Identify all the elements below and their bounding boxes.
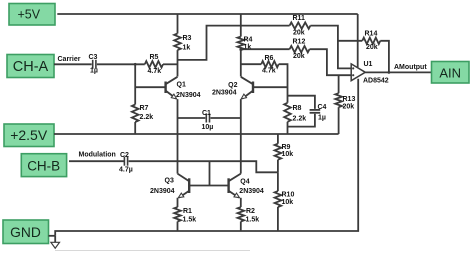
svg-text:Carrier: Carrier: [58, 56, 81, 63]
resistor R13: [335, 75, 355, 134]
wire faint bottom artifact: [55, 250, 250, 252]
svg-text:1µ: 1µ: [318, 114, 326, 121]
svg-text:R12: R12: [293, 39, 306, 46]
svg-text:1k: 1k: [183, 45, 191, 52]
capacitor C4: [288, 96, 327, 127]
resistor R8: [284, 103, 306, 123]
svg-text:2N3904: 2N3904: [212, 90, 237, 97]
svg-text:R1: R1: [183, 208, 192, 215]
transistor Q1: [166, 77, 201, 99]
svg-text:+5V: +5V: [18, 8, 41, 22]
node AMoutput junction: [388, 71, 391, 74]
resistor R5: [145, 54, 163, 75]
resistor R10: [275, 172, 295, 231]
wire R6 lead: [241, 63, 261, 65]
node AMoutput label: [394, 64, 427, 71]
op-amp U1: [351, 61, 389, 84]
svg-text:R13: R13: [343, 96, 356, 103]
wire Q2 emitter down: [240, 99, 242, 173]
wire node A down: [134, 64, 136, 104]
svg-text:4.7k: 4.7k: [148, 68, 162, 75]
node Carrier label: [58, 56, 81, 63]
svg-text:CH-B: CH-B: [27, 158, 60, 173]
svg-text:1µ: 1µ: [90, 68, 98, 75]
svg-text:2N3904: 2N3904: [176, 92, 201, 99]
svg-text:20k: 20k: [366, 44, 378, 51]
svg-text:Q4: Q4: [240, 179, 249, 186]
resistor R12: [290, 39, 310, 61]
svg-text:AMoutput: AMoutput: [394, 64, 427, 71]
node R4 junction: [239, 48, 242, 51]
resistor R14: [362, 31, 380, 52]
wire C3 to node A: [97, 63, 145, 65]
svg-text:R4: R4: [244, 37, 253, 44]
wire R6 to Q2 base node: [279, 64, 288, 103]
wire R12 line: [241, 48, 290, 50]
wire +2.5V rail: [54, 133, 339, 135]
port CH-A: [7, 55, 54, 78]
wire R12 to op-amp non-inverting input: [310, 49, 352, 75]
wire R5 to Q1 collector node: [163, 63, 178, 65]
svg-text:R14: R14: [365, 31, 378, 38]
svg-text:R8: R8: [293, 105, 302, 112]
svg-text:1.5k: 1.5k: [183, 217, 197, 224]
wire R11 to op-amp inverting input: [310, 26, 351, 69]
wire Q2 base: [253, 86, 287, 88]
port +2.5V: [4, 124, 54, 147]
svg-text:AIN: AIN: [439, 65, 461, 80]
transistor Q3: [150, 174, 189, 198]
wire +5V drop to op-amp V+: [357, 14, 359, 67]
ground rail: [55, 79, 358, 236]
wire CH-A to C3: [54, 63, 92, 65]
svg-text:2N3904: 2N3904: [239, 188, 264, 195]
svg-text:U1: U1: [364, 61, 373, 68]
svg-text:Q2: Q2: [228, 82, 237, 89]
transistor Q2: [212, 77, 253, 99]
wire base bias drop: [209, 161, 211, 185]
svg-text:2.2k: 2.2k: [140, 114, 154, 121]
capacitor C1: [178, 110, 241, 131]
capacitor C3: [89, 54, 98, 74]
svg-text:R10: R10: [282, 192, 295, 199]
resistor R4: [238, 14, 253, 77]
svg-text:10µ: 10µ: [202, 124, 214, 131]
wire R8 to rail: [287, 122, 289, 134]
svg-text:R3: R3: [183, 35, 192, 42]
svg-text:2.2k: 2.2k: [293, 115, 307, 122]
svg-text:R9: R9: [282, 144, 291, 151]
svg-text:Q1: Q1: [177, 82, 186, 89]
svg-text:C3: C3: [89, 54, 98, 61]
resistor R1: [174, 198, 196, 231]
resistor R9: [275, 134, 294, 172]
svg-text:20k: 20k: [293, 53, 305, 60]
wire Q1 collector riser to R11: [178, 26, 290, 60]
svg-text:+2.5V: +2.5V: [10, 127, 48, 143]
resistor R11: [290, 15, 311, 37]
svg-text:10k: 10k: [282, 199, 294, 206]
resistor R3: [174, 14, 191, 77]
ground symbol: [51, 236, 60, 248]
resistor R7: [132, 105, 153, 123]
wire R14 branch: [338, 40, 362, 42]
wire GND lead: [49, 235, 56, 237]
svg-text:C1: C1: [202, 110, 211, 117]
port AIN: [432, 62, 470, 84]
svg-text:20k: 20k: [343, 104, 355, 111]
resistor R2: [238, 198, 260, 231]
node A junction: [134, 63, 137, 66]
svg-text:C2: C2: [120, 152, 129, 159]
port CH-B: [21, 154, 66, 177]
capacitor C2: [119, 152, 133, 173]
svg-text:4.7k: 4.7k: [262, 68, 276, 75]
svg-text:2N3904: 2N3904: [150, 188, 175, 195]
svg-text:R11: R11: [293, 15, 306, 22]
wire Q3 Q4 base line: [189, 185, 228, 187]
port GND: [3, 220, 49, 244]
wire R14 to output: [380, 41, 389, 73]
svg-text:Modulation: Modulation: [79, 152, 116, 159]
svg-text:R7: R7: [140, 105, 149, 112]
svg-text:CH-A: CH-A: [13, 59, 49, 75]
svg-text:C4: C4: [318, 104, 327, 111]
wire R7 to +2.5V rail: [134, 122, 136, 134]
svg-text:R6: R6: [265, 55, 274, 62]
node Modulation label: [79, 152, 116, 159]
svg-text:1.5k: 1.5k: [246, 217, 260, 224]
wire Q1 emitter down: [177, 99, 179, 173]
svg-text:AD8542: AD8542: [363, 77, 389, 84]
svg-text:20k: 20k: [293, 30, 305, 37]
svg-text:10k: 10k: [282, 151, 294, 158]
wire op-amp output: [365, 71, 431, 73]
svg-text:R2: R2: [246, 208, 255, 215]
resistor R6: [261, 55, 278, 74]
transistor Q4: [229, 174, 264, 198]
svg-text:GND: GND: [10, 225, 41, 240]
svg-text:Q3: Q3: [165, 178, 174, 185]
port +5V: [9, 4, 55, 26]
wire CH-B to C2: [69, 160, 124, 162]
svg-text:R5: R5: [150, 54, 159, 61]
wire +5V rail: [57, 13, 357, 15]
svg-text:4.7µ: 4.7µ: [119, 166, 133, 173]
wire Q1 base: [135, 86, 165, 88]
wire modulation line: [129, 161, 278, 172]
